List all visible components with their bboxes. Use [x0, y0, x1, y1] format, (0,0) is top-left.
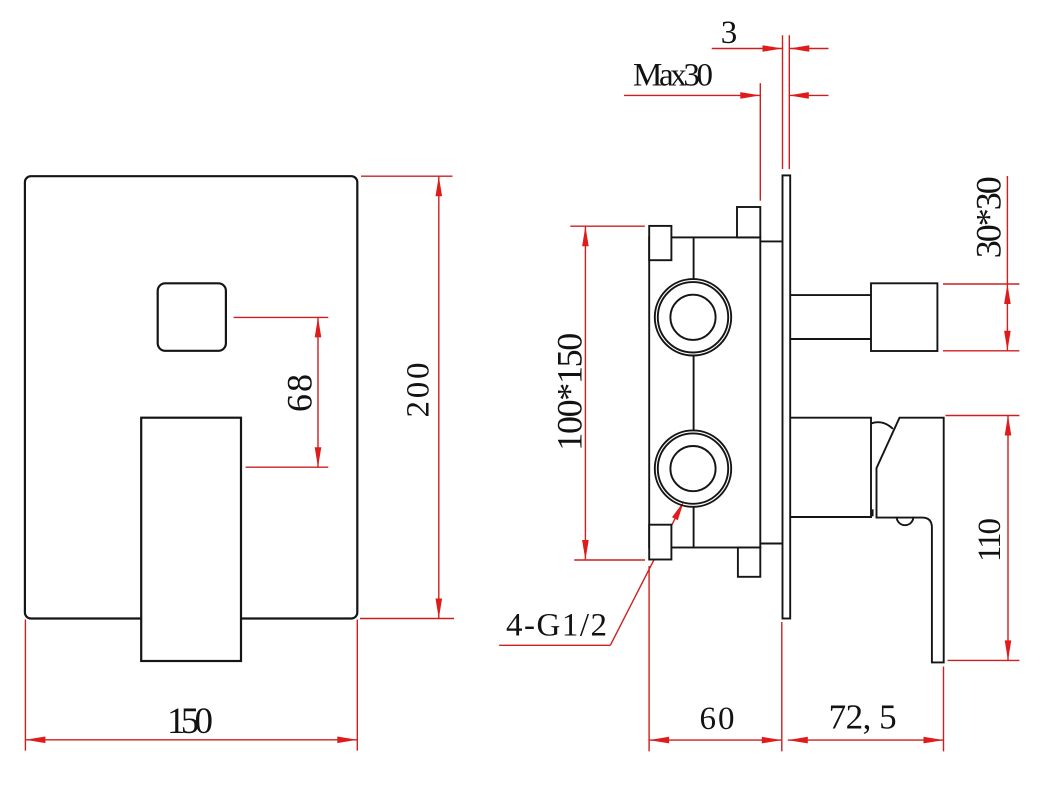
svg-text:110: 110	[972, 518, 1008, 562]
svg-text:30*30: 30*30	[969, 176, 1009, 258]
svg-text:200: 200	[401, 363, 437, 418]
svg-text:150: 150	[167, 701, 213, 742]
svg-text:100*150: 100*150	[550, 333, 590, 451]
svg-text:72, 5: 72, 5	[829, 698, 897, 737]
svg-text:4-G1/2: 4-G1/2	[506, 608, 607, 644]
svg-text:3: 3	[721, 15, 738, 51]
svg-text:Max30: Max30	[633, 58, 713, 94]
